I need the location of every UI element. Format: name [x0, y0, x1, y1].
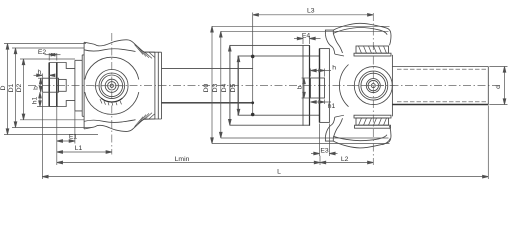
left bearing bottom cap: [101, 98, 122, 102]
svg-text:D1: D1: [8, 83, 15, 92]
left bearing circles: [96, 70, 129, 103]
dim h right: [311, 70, 332, 72]
svg-text:D5: D5: [230, 83, 237, 92]
stub end face: [48, 63, 50, 107]
svg-text:Lmin: Lmin: [175, 156, 190, 163]
dim L1: [57, 151, 112, 153]
right yoke top wing inner: [333, 28, 387, 35]
dim D4: [229, 45, 231, 125]
svg-text:E3: E3: [320, 148, 329, 155]
collar: [320, 49, 330, 123]
left cap hatch bottom: [135, 113, 155, 127]
svg-text:L: L: [277, 169, 281, 176]
svg-text:h: h: [38, 69, 42, 76]
svg-text:L2: L2: [341, 156, 349, 163]
right cap bottom: [356, 118, 389, 125]
svg-text:h: h: [332, 64, 336, 71]
stub groove: [56, 63, 58, 107]
dim L3: [253, 14, 374, 16]
right yoke bottom wing outer: [333, 126, 391, 148]
dim h1 left: [39, 92, 41, 106]
flange step 1: [75, 60, 82, 111]
svg-text:E4: E4: [302, 32, 311, 39]
svg-text:b: b: [296, 85, 303, 89]
chain dim L2: [320, 162, 373, 164]
right bearing circles: [354, 67, 392, 105]
right yoke bottom wing tab: [325, 137, 333, 141]
svg-text:E2: E2: [38, 49, 47, 56]
left boss arc bottom: [85, 92, 139, 114]
svg-text:E1: E1: [69, 133, 78, 140]
svg-text:d: d: [495, 85, 502, 89]
tube: [162, 68, 253, 70]
svg-text:h1: h1: [328, 103, 336, 110]
left cap hatch top: [135, 45, 155, 59]
dim D: [7, 44, 9, 135]
sleeve groove: [302, 46, 304, 126]
left yoke bottom wing inner: [84, 120, 135, 123]
svg-text:D3: D3: [212, 83, 219, 92]
right neck outer bottom: [325, 117, 334, 137]
right yoke top wing tab: [325, 30, 333, 34]
wing tip fold bottom: [383, 139, 391, 145]
right bearing crosshair: [352, 85, 395, 87]
right yoke bottom wing inner: [333, 135, 387, 141]
right neck outer: [325, 34, 334, 54]
svg-text:D2: D2: [16, 83, 23, 92]
left bearing crosshair: [93, 85, 131, 87]
svg-text:D0: D0: [203, 83, 210, 92]
dim D3: [220, 31, 222, 138]
right joint centerline: [372, 13, 374, 165]
dim D5: [238, 56, 240, 115]
weld line + L3 extension: [252, 13, 254, 115]
dim b right: [303, 78, 305, 98]
right hub: [391, 55, 393, 116]
dim E4: [294, 38, 303, 40]
yoke left face: [83, 42, 85, 129]
sleeve inner box: [238, 56, 320, 115]
main centerline: [28, 85, 500, 87]
dim E1: [57, 140, 75, 142]
svg-text:h1: h1: [32, 97, 39, 105]
dim D0: [211, 26, 213, 143]
left boss arc top: [85, 57, 139, 79]
right keyway section: [311, 78, 325, 98]
dim E3: [311, 153, 320, 155]
right neck inner: [333, 33, 342, 53]
chain dim Lmin: [57, 162, 320, 164]
dim E2: [45, 54, 61, 56]
dim L: [42, 176, 488, 178]
dim D2: [23, 59, 25, 120]
left stub outline: [49, 63, 75, 107]
dim h1 right: [311, 101, 332, 103]
right shaft: [392, 67, 488, 105]
left joint centerline: [111, 33, 113, 155]
left yoke bottom wing outer: [84, 119, 155, 131]
dim D1: [15, 48, 17, 128]
left yoke top wing outer: [84, 40, 155, 52]
left yoke top wing inner: [84, 49, 135, 52]
right yoke top wing outer: [333, 23, 391, 45]
sleeve outer box: [230, 45, 310, 125]
flange step 2: [82, 55, 84, 116]
right neck inner bottom: [333, 118, 342, 138]
dim h left: [34, 74, 43, 76]
dim d: [504, 67, 506, 105]
svg-text:D: D: [0, 85, 7, 90]
right outer band below bottom cap: [355, 125, 391, 128]
svg-text:L3: L3: [307, 8, 315, 15]
right under-cap band bottom: [354, 115, 391, 118]
right cap top: [356, 46, 389, 53]
left hub: [144, 52, 162, 119]
svg-text:L1: L1: [75, 145, 83, 152]
right yoke base to hub: [335, 54, 344, 117]
right boss arc left: [339, 65, 348, 107]
keyway slot left: [42, 78, 58, 92]
right under-cap band: [354, 53, 391, 56]
svg-text:D4: D4: [221, 83, 228, 92]
keyway pocket: [59, 79, 67, 91]
dim b left: [40, 78, 42, 92]
svg-text:b: b: [32, 86, 39, 90]
